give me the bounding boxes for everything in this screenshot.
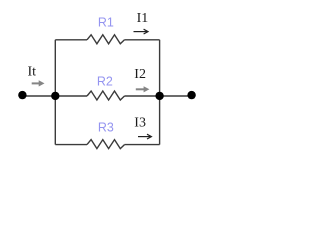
wire left rail bbox=[54, 40, 56, 145]
resistor R2 bbox=[87, 91, 125, 100]
node right junction bbox=[155, 92, 163, 100]
arrow I2 bbox=[136, 86, 150, 92]
node right terminal bbox=[187, 91, 195, 99]
arrow It bbox=[32, 80, 45, 86]
node left terminal bbox=[18, 91, 26, 99]
svg-text:R2: R2 bbox=[97, 74, 113, 88]
wire bottom branch right segment bbox=[125, 144, 160, 146]
arrow I3 bbox=[138, 134, 151, 139]
svg-text:I3: I3 bbox=[134, 116, 146, 131]
svg-text:It: It bbox=[28, 64, 37, 79]
node left junction bbox=[51, 92, 59, 100]
svg-text:R1: R1 bbox=[98, 16, 114, 30]
svg-text:I1: I1 bbox=[137, 11, 149, 26]
svg-text:R3: R3 bbox=[98, 120, 114, 134]
wire top branch right segment bbox=[125, 39, 160, 41]
wire top branch left segment bbox=[55, 39, 87, 41]
wire middle branch right segment bbox=[125, 95, 192, 97]
wire bottom branch left segment bbox=[55, 144, 87, 146]
svg-text:I2: I2 bbox=[134, 67, 146, 82]
arrow I1 bbox=[134, 29, 149, 34]
resistor R3 bbox=[87, 140, 125, 149]
resistor R1 bbox=[87, 35, 125, 44]
wire right rail bbox=[159, 40, 161, 145]
wire middle branch left segment bbox=[22, 95, 87, 97]
